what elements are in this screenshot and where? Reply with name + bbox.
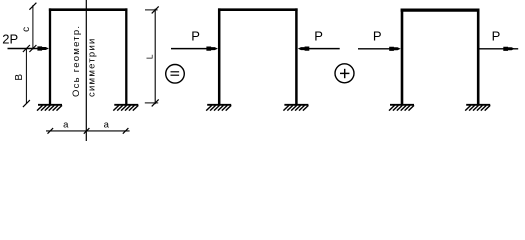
equals symbol circle: [166, 65, 185, 84]
load 2P arrow: [8, 46, 49, 50]
dimension L line: [145, 6, 159, 106]
frame 3 right column: [477, 9, 480, 105]
frame 3 left column: [401, 9, 404, 105]
svg-text:L: L: [145, 54, 155, 59]
frame 3 left load P arrow: [358, 47, 401, 51]
frame 1 left column: [49, 8, 51, 104]
bottom dimension a a line: [46, 128, 130, 134]
frame 1 beam: [49, 8, 128, 11]
frame 3 right fixed support: [465, 105, 490, 111]
frame 1 right column: [125, 8, 127, 104]
svg-text:P: P: [492, 28, 501, 43]
frame 1 left fixed support: [37, 105, 62, 111]
frame 1 right fixed support: [113, 105, 138, 111]
frame 2 beam: [218, 8, 298, 11]
svg-text:a: a: [104, 120, 110, 131]
svg-text:Ось геометр.: Ось геометр.: [71, 25, 82, 97]
dimension c line: [29, 3, 36, 52]
frame 2 right column: [295, 8, 298, 104]
frame 2 right fixed support: [283, 105, 308, 111]
frame 2 left column: [218, 8, 221, 104]
frame 2 left fixed support: [206, 105, 231, 111]
svg-text:P: P: [373, 29, 382, 44]
plus symbol circle: [335, 64, 354, 83]
svg-text:P: P: [314, 29, 323, 44]
svg-text:B: B: [14, 74, 25, 81]
frame 3 right load P arrow: [478, 47, 518, 51]
frame 3 left fixed support: [389, 105, 414, 111]
frame 3 beam: [401, 9, 480, 12]
dimension B line: [23, 45, 30, 107]
axis of symmetry line: [85, 0, 87, 141]
svg-text:2P: 2P: [2, 32, 18, 47]
svg-text:c: c: [21, 27, 32, 32]
svg-text:a: a: [63, 120, 69, 131]
svg-text:симметрии: симметрии: [87, 37, 98, 97]
frame 2 right load P arrow: [298, 47, 340, 51]
frame 2 left load P arrow: [171, 47, 218, 51]
svg-text:P: P: [191, 29, 200, 44]
